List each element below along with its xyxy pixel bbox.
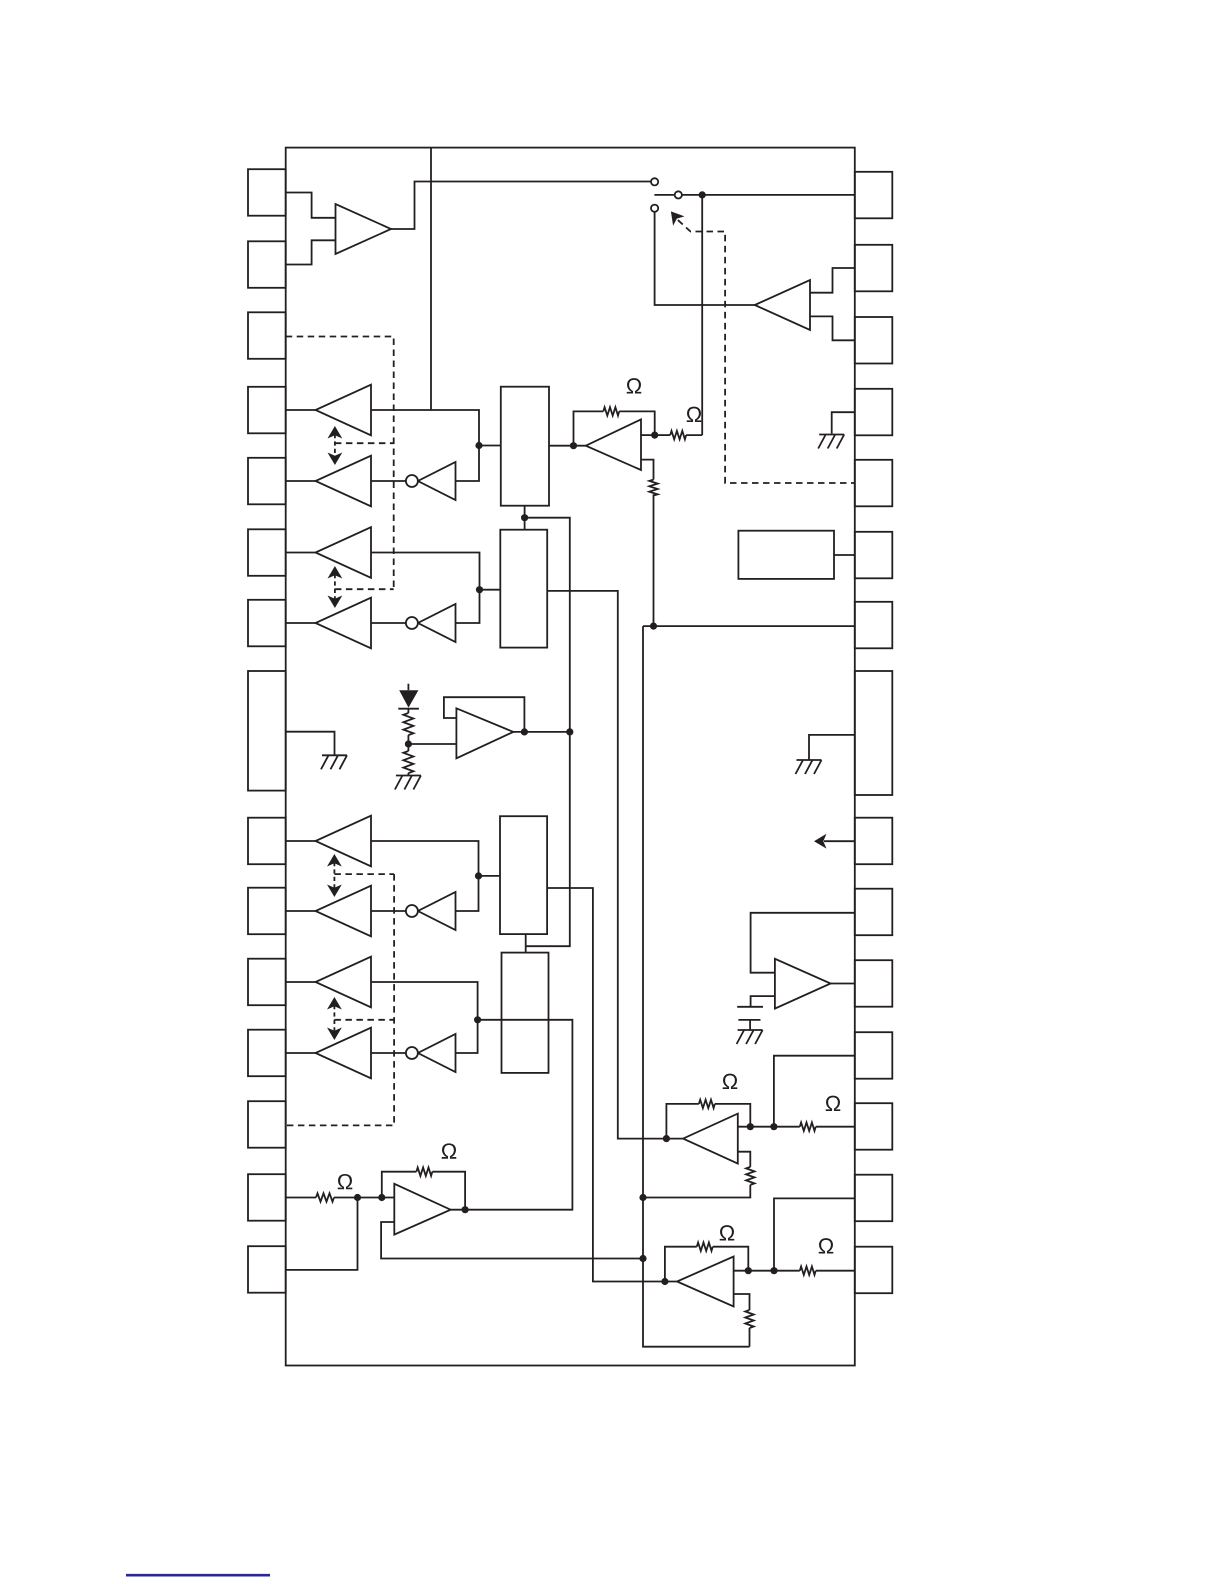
value label ohm U7 series (826, 1096, 841, 1111)
node U5 input a (354, 1194, 361, 1201)
junction node on switch line (699, 191, 706, 198)
ground wire at pin 23 (809, 735, 855, 760)
node U4 feedback tie (521, 728, 528, 735)
wire pin15 up to input node (286, 1198, 358, 1270)
op-amp U5 (394, 1184, 450, 1235)
op-amp U6 (775, 959, 831, 1009)
buffer B (drives pin 5) (316, 456, 372, 507)
node on bus at U7 (639, 1194, 646, 1201)
pin 30 right (855, 1247, 893, 1294)
resistor divider upper (403, 713, 413, 735)
block 5 (738, 531, 834, 579)
node divider (405, 740, 412, 747)
ground symbol under divider (395, 776, 421, 790)
resistor U7 series to pin 28 (800, 1123, 816, 1131)
wire resistor to bottom bus (749, 1328, 751, 1347)
pin 11 left (248, 959, 286, 1006)
wire top-edge tap to group1 node (430, 148, 432, 410)
wire block1 to op-amp U2 (549, 445, 586, 447)
resistor below U7 (746, 1167, 754, 1185)
wire U6 upper input to pin 25 (751, 913, 855, 973)
buffer D (drives pin 7) (316, 598, 372, 649)
dashed rung group2 (335, 588, 394, 590)
wire buffer C input from node (371, 553, 480, 590)
wire pin5 to buffer B (286, 480, 316, 482)
node U2 input (570, 442, 577, 449)
wire U3 input to pin 17 (810, 268, 855, 293)
block 1 (501, 387, 549, 506)
node U7 output a (747, 1123, 754, 1130)
node U7 output b (770, 1123, 777, 1130)
wire pin6 to buffer C (286, 552, 316, 554)
wire node down to inverter N3 input (456, 876, 479, 911)
wire to divider node (407, 735, 409, 751)
wire node through block4 to op-amp U5 output bus (451, 1020, 573, 1210)
wire node down to inverter N2 input (456, 590, 480, 623)
wire pin2 to buffer U1 input (286, 240, 336, 264)
comparator U4 (456, 708, 513, 758)
node U2 output (651, 432, 658, 439)
value label ohm U8 series (819, 1238, 834, 1253)
wire resistor to pin 28 (816, 1126, 855, 1128)
ground symbol right middle (796, 760, 822, 774)
wire U6 output to pin 26 (831, 983, 855, 985)
feedback wire to U7 output (715, 1104, 751, 1127)
wire pin7 to buffer D (286, 622, 316, 624)
inverter N1 bubble (406, 475, 418, 487)
wire block2 output bus down to op-amp U7 input (547, 591, 683, 1139)
diode cathode bar (398, 708, 419, 710)
node group3 (475, 872, 482, 879)
block 4 (502, 953, 549, 1073)
dashed gang box upper (from pin 3) (286, 337, 394, 590)
wire resistor to switch-node vertical (686, 434, 702, 436)
block 2 (500, 530, 547, 648)
value label ohm U2 feedback (627, 378, 642, 393)
wire pin14 to input resistor (286, 1197, 316, 1199)
node at pin 22 row (650, 623, 657, 630)
wire resistor to pin 30 (816, 1270, 855, 1272)
wire capacitor to ground (749, 1020, 751, 1030)
buffer U1 (336, 204, 392, 254)
dashed rung group4 (334, 1019, 394, 1021)
buffer C (drives pin 6) (316, 527, 372, 578)
pin 14 left (248, 1174, 286, 1221)
switch wiper arrowhead (671, 211, 685, 225)
pin 12 left (248, 1030, 286, 1077)
pin 22 right (855, 602, 893, 649)
node U5 input b (378, 1194, 385, 1201)
pin 21 right (855, 532, 893, 579)
dashed gang arrow 1 (334, 434, 336, 457)
buffer F (drives pin 10) (316, 886, 372, 937)
op-amp U2 (586, 419, 641, 470)
wire node to block 3 (479, 875, 501, 877)
inverter N2 bubble (406, 617, 418, 629)
resistor below U2 (649, 480, 657, 496)
wire cathode to resistor (407, 709, 409, 713)
wire to series resistor (655, 434, 671, 436)
pin 23 right (tall) (855, 671, 893, 795)
capacitor C1 (737, 1007, 763, 1020)
inverter N4 bubble (406, 1047, 418, 1059)
wire pin11 to buffer G (286, 981, 316, 983)
ground symbol left (321, 755, 347, 769)
dashed gang arrow 3 (333, 862, 335, 889)
wire switch node down to resistor network (701, 198, 703, 435)
switch contact B (open circle on wiper line) (675, 191, 682, 198)
wire resistor to ground (407, 773, 409, 775)
resistor U2 feedback (603, 407, 619, 415)
inverter N2 (418, 604, 456, 642)
wire resistor down to pin-22 node (653, 494, 655, 626)
pin 4 left (248, 387, 286, 434)
inverter N4 (418, 1034, 456, 1072)
wire buffer G input from node (371, 982, 478, 1020)
ground symbol top right (818, 435, 844, 449)
wire resistor to bus node (643, 1185, 750, 1198)
buffer H (drives pin 12) (316, 1028, 372, 1079)
dashed gang arrow 2 (334, 574, 336, 600)
wire block3 to block4 connector (525, 934, 527, 953)
dashed gang arrow 4 (333, 1005, 335, 1032)
resistor U2 series (670, 431, 686, 439)
switch contact A (open circle) (651, 178, 658, 185)
wire U3 input to pin 18 (810, 316, 855, 340)
dashed rung group3 (334, 873, 394, 875)
ground wire from pin 8 (286, 732, 335, 755)
inverter N3 bubble (406, 905, 418, 917)
node U8 output a (745, 1267, 752, 1274)
feedback wire U2 (574, 411, 604, 445)
resistor U8 feedback (697, 1243, 713, 1251)
dashed rung group1 (335, 442, 394, 444)
wire U7 node up to pin 27 (774, 1056, 855, 1127)
feedback wire to output node (619, 411, 655, 435)
pin 25 right (855, 889, 893, 936)
buffer G (drives pin 11) (316, 957, 372, 1008)
vertical bus from pin-22 node to bottom (643, 626, 750, 1347)
wire N3 to buffer F (371, 910, 406, 912)
wire resistor to U5 input node (334, 1197, 394, 1199)
pin 2 left (248, 241, 286, 287)
wire U5 lower terminal to bus (381, 1222, 643, 1259)
value label ohm U8 feedback (720, 1225, 735, 1240)
pin 9 left (248, 818, 286, 865)
pin 16 right (855, 172, 893, 219)
footer blue rule (126, 1574, 270, 1577)
feedback loop U4 (444, 697, 525, 732)
wire divider node to comparator U4 (408, 743, 456, 745)
wire N1 to buffer B (371, 480, 406, 482)
pin 29 right (855, 1175, 893, 1222)
op-amp U3 (755, 280, 810, 330)
node U4 output on bus (566, 728, 573, 735)
pin 3 left (248, 312, 286, 359)
wire pin1 to buffer U1 input (286, 193, 336, 218)
wire node down to inverter N1 input (456, 446, 480, 482)
IC body outline (286, 148, 855, 1366)
pin 24 right (855, 818, 893, 865)
wire to U7 series resistor (774, 1126, 800, 1128)
resistor U8 series to pin 30 (800, 1267, 816, 1275)
wire block1 to block2 connector (524, 506, 526, 530)
dashed control line from wiper to pin 20 (678, 220, 855, 483)
feedback wire U8 (665, 1247, 697, 1282)
wire block5 to pin 21 (834, 554, 855, 556)
wire node down to inverter N4 input (456, 1020, 478, 1053)
pin 19 right (855, 389, 893, 436)
diode D1 (399, 690, 418, 707)
value label ohm U2 series (687, 407, 702, 422)
wire pin4 to buffer A (286, 409, 316, 411)
node U7 input (663, 1135, 670, 1142)
wire pin12 to buffer H (286, 1052, 316, 1054)
pin 17 right (855, 245, 893, 291)
value label ohm U5 feedback (442, 1143, 457, 1158)
feedback wire to U5 output (432, 1172, 465, 1210)
wire U6 lower input to capacitor (751, 996, 775, 1007)
pin 7 left (248, 600, 286, 647)
block 3 (500, 816, 547, 934)
buffer A (drives pin 4) (316, 385, 372, 436)
resistor divider lower (403, 751, 413, 773)
inverter N1 (418, 462, 456, 500)
wire node to block 2 (480, 589, 501, 591)
resistor U7 feedback (699, 1100, 715, 1108)
wire junction to middle bus (525, 518, 570, 947)
diode anode stub (407, 684, 409, 691)
switch contact C (open circle) (651, 205, 658, 212)
node group1 (475, 442, 482, 449)
inverter N3 (418, 892, 456, 930)
pin 20 right (855, 460, 893, 507)
switch common wire to pin 16 (654, 194, 854, 196)
pin 27 right (855, 1032, 893, 1079)
wire node to pin 22 (643, 625, 855, 627)
wire node to block 1 (479, 445, 501, 447)
wire U1 output to switch contact (391, 182, 651, 230)
wire pin10 to buffer F (286, 910, 316, 912)
resistor below U8 (745, 1310, 753, 1328)
pin 28 right (855, 1103, 893, 1150)
pin 18 right (855, 317, 893, 364)
wire N2 to buffer D (371, 622, 406, 624)
arrow into pin 24 (824, 840, 855, 842)
wire block3 output bus down to op-amp U8 input (547, 888, 677, 1282)
wire pin9 to buffer E (286, 840, 316, 842)
node U5 output (462, 1206, 469, 1213)
pin 13 left (248, 1101, 286, 1148)
pin 5 left (248, 458, 286, 505)
feedback wire U5 (382, 1172, 417, 1198)
wire U4 output to middle bus (513, 731, 570, 733)
pin 26 right (855, 960, 893, 1007)
op-amp U7 (683, 1114, 738, 1164)
wire U2 output (641, 434, 655, 436)
ground wire at pin 19 (832, 412, 855, 433)
value label ohm U7 feedback (723, 1074, 738, 1089)
junction between block1 and block2 (521, 514, 528, 521)
ground symbol under capacitor (737, 1030, 763, 1044)
value label ohm U5 input (338, 1174, 353, 1189)
wire N4 to buffer H (371, 1052, 406, 1054)
wire U8 lower terminal (734, 1294, 750, 1310)
pin 8 left (tall) (248, 671, 286, 791)
feedback wire U7 (666, 1104, 699, 1139)
pin 15 left (248, 1246, 286, 1293)
wire contact C down to op-amp U3 output (655, 212, 755, 305)
wire U7 lower terminal (738, 1152, 751, 1167)
op-amp U8 (677, 1257, 734, 1307)
pin 1 left (248, 169, 286, 216)
wire U2 lower terminal down (641, 460, 654, 480)
pin 6 left (248, 529, 286, 576)
resistor U5 input (316, 1193, 334, 1201)
wire buffer E input from node (371, 841, 479, 876)
resistor U5 feedback (416, 1168, 432, 1176)
node group2 (476, 586, 483, 593)
buffer E (drives pin 9) (316, 816, 372, 867)
dashed gang box lower (to pin 13) (286, 874, 394, 1125)
wire to U8 series resistor (774, 1270, 800, 1272)
node group4 (474, 1016, 481, 1023)
wire U8 node up to pin 29 (774, 1198, 855, 1270)
wire U8 output (734, 1270, 774, 1272)
node U8 input (661, 1278, 668, 1285)
wire buffer A input from node (371, 410, 479, 446)
pin 10 left (248, 888, 286, 935)
node U8 output b (770, 1267, 777, 1274)
feedback wire to U8 output (713, 1247, 749, 1271)
wire U7 output (738, 1126, 774, 1128)
node on bus at U8 input row (639, 1255, 646, 1262)
